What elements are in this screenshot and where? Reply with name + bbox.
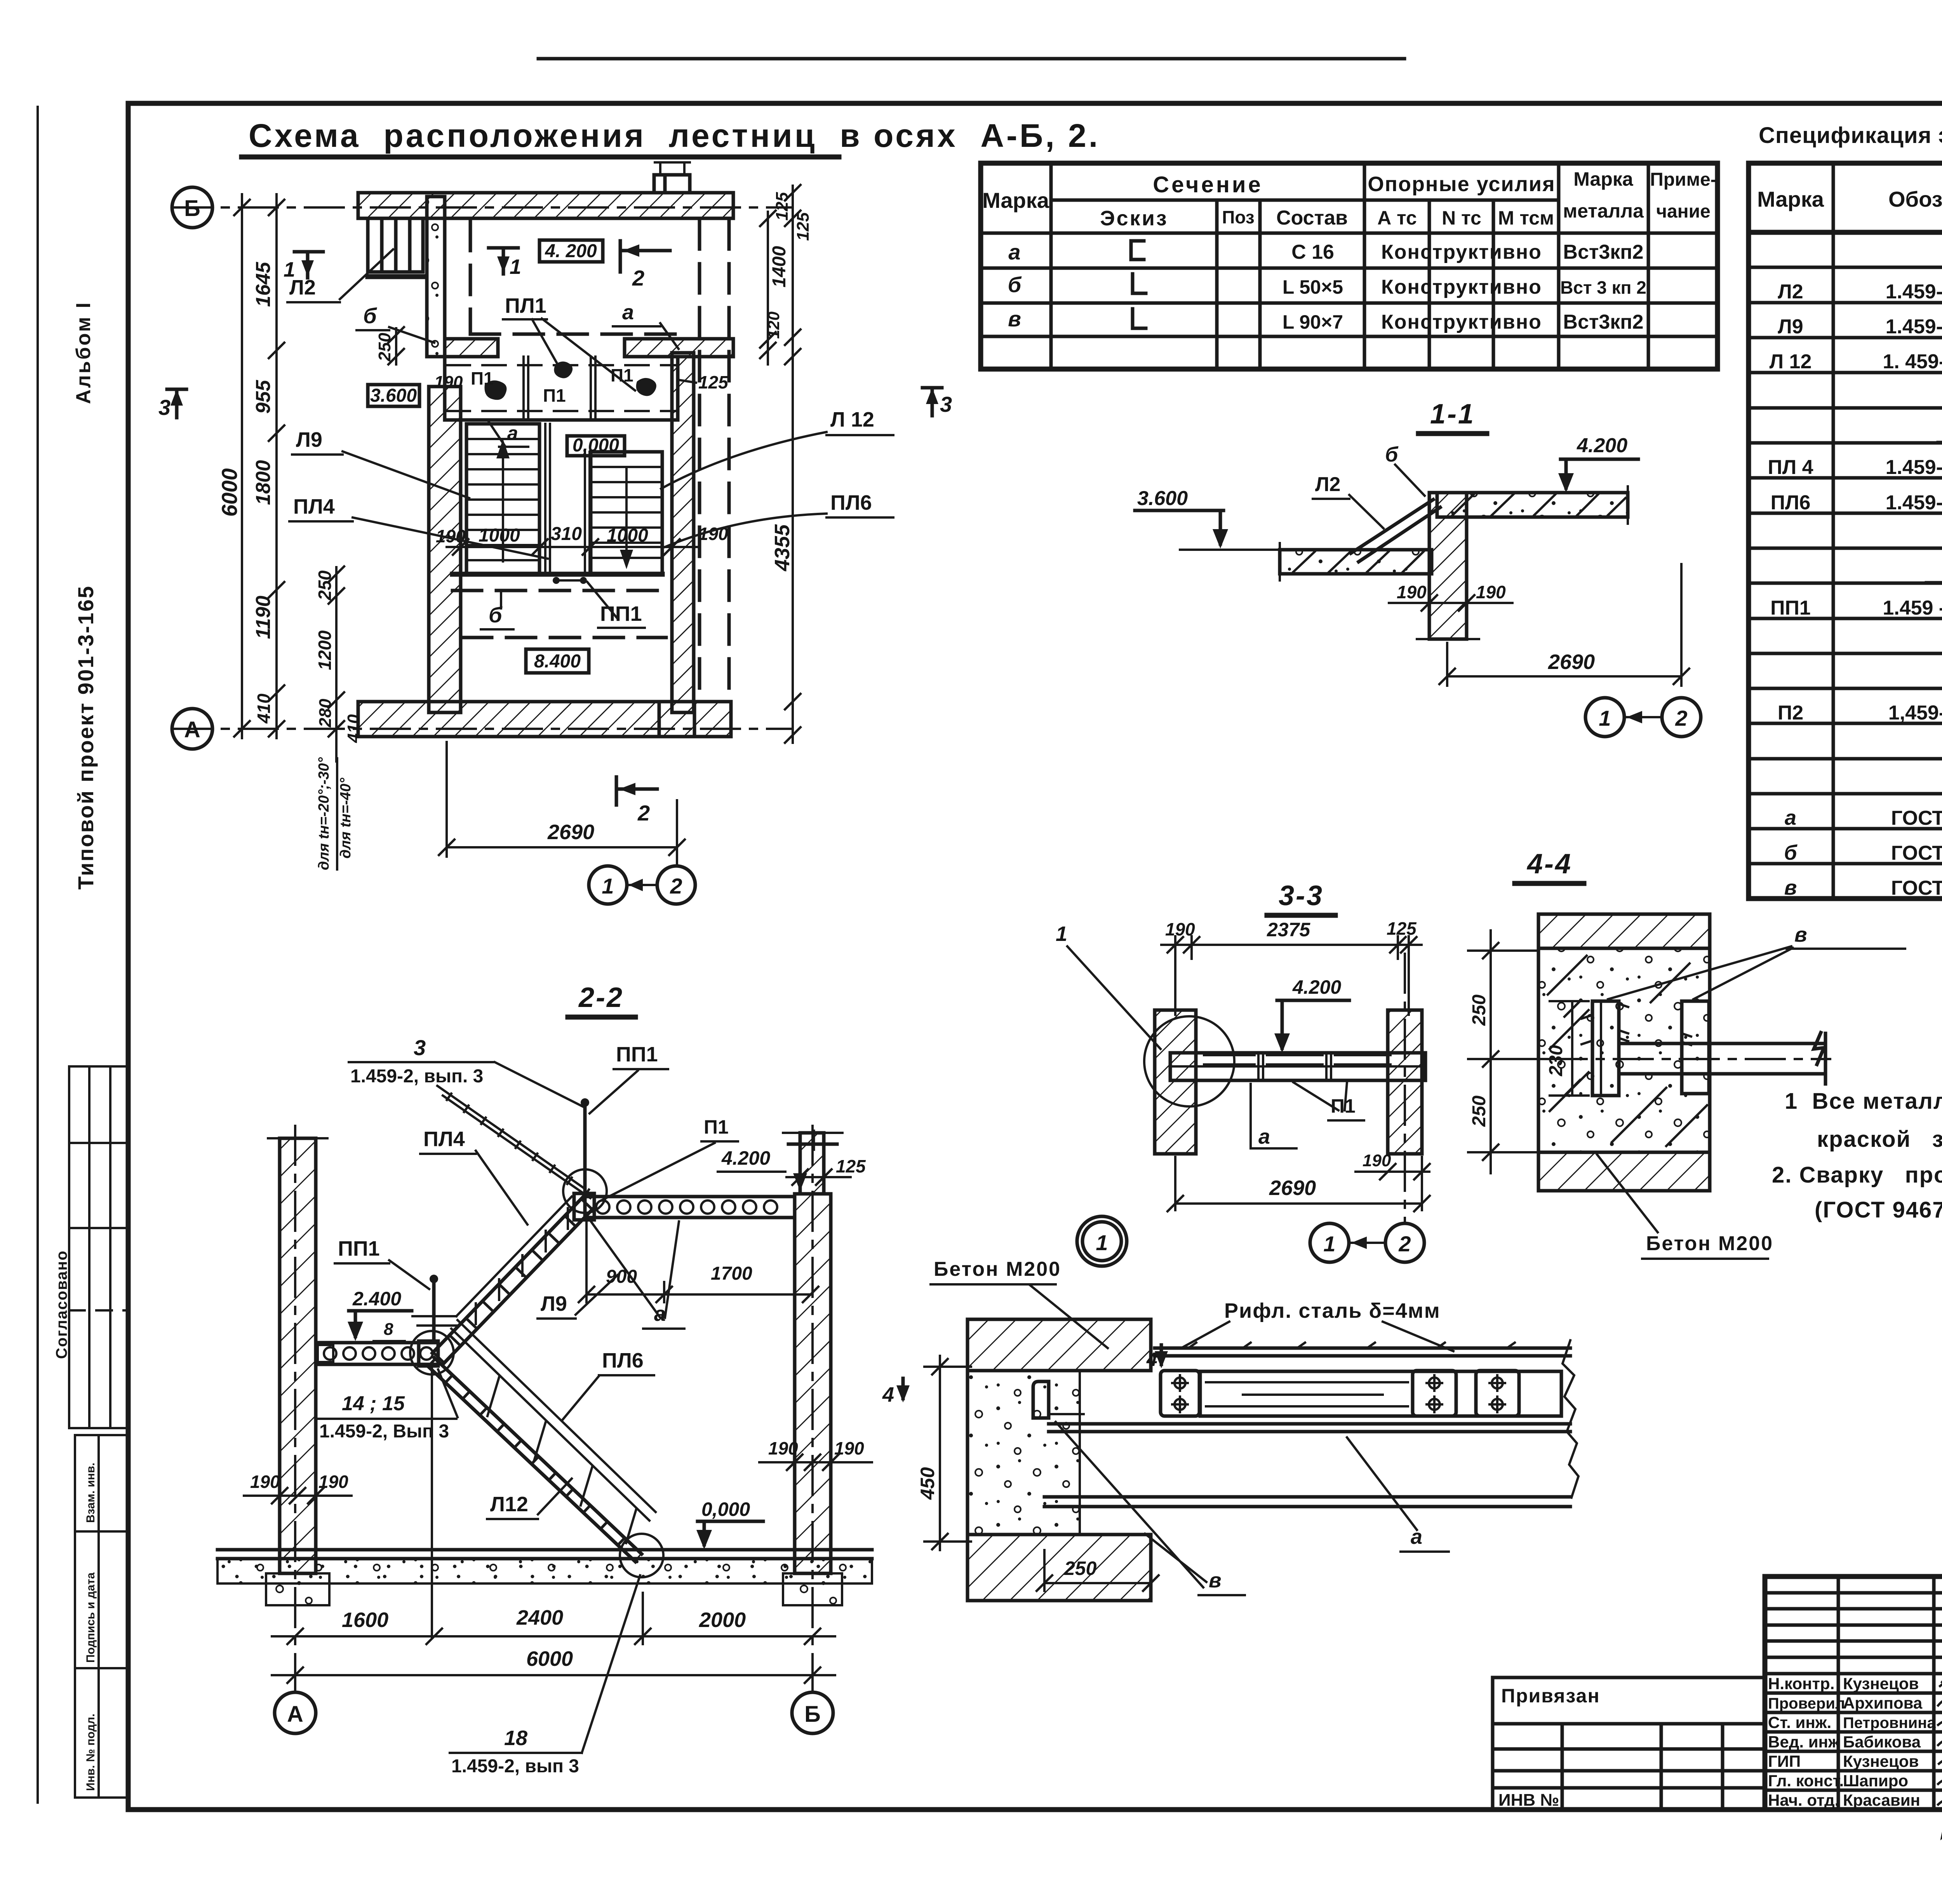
- lower flight band L12: [427, 1358, 642, 1562]
- signature table name rows: [1765, 1693, 1942, 1790]
- svg-text:Л9: Л9: [296, 428, 322, 451]
- foundation right: [783, 1573, 842, 1605]
- wall left sec33: [1155, 1010, 1196, 1154]
- svg-text:2: 2: [1675, 706, 1687, 730]
- svg-text:М тсм: М тсм: [1498, 207, 1554, 229]
- svg-text:Вст3кп2: Вст3кп2: [1563, 241, 1643, 263]
- anchor centerline: [1548, 1058, 1830, 1060]
- row a eskiz channel glyph: [1131, 241, 1144, 260]
- svg-text:1: 1: [1599, 706, 1611, 730]
- svg-text:Гл. конст.: Гл. конст.: [1768, 1772, 1844, 1790]
- axis A circle: [172, 709, 212, 749]
- svg-text:1600: 1600: [342, 1608, 388, 1632]
- landing edge thick: [452, 572, 662, 577]
- wall bottom: [358, 702, 731, 737]
- svg-text:1800: 1800: [252, 460, 275, 505]
- svg-text:1: 1: [1056, 922, 1067, 946]
- svg-text:0,000: 0,000: [573, 435, 619, 456]
- detail callout circle sec33: [1144, 1016, 1234, 1106]
- stair arrow up: [502, 449, 504, 561]
- dumbbell mark: [556, 579, 583, 582]
- svg-text:2: 2: [1398, 1232, 1411, 1256]
- svg-text:1: 1: [602, 874, 614, 898]
- svg-text:8.400: 8.400: [534, 651, 581, 672]
- svg-text:ПЛ 4: ПЛ 4: [1768, 456, 1813, 479]
- svg-text:450: 450: [917, 1467, 938, 1500]
- embedded angle: [1033, 1381, 1049, 1418]
- svg-text:Опорные усилия: Опорные усилия: [1368, 172, 1555, 196]
- beam web lines: [1049, 1424, 1570, 1432]
- svg-text:П1: П1: [471, 368, 494, 388]
- anchor bar: [1619, 1033, 1825, 1084]
- svg-text:Л9: Л9: [541, 1292, 567, 1315]
- svg-text:ПП1: ПП1: [1770, 597, 1811, 619]
- axis A 2-2: [294, 1126, 296, 1692]
- svg-text:ПЛ6: ПЛ6: [602, 1349, 644, 1372]
- svg-text:8: 8: [384, 1320, 393, 1339]
- svg-text:125: 125: [1387, 918, 1417, 939]
- junction circle bottom: [620, 1534, 663, 1577]
- dim 250 small top: [395, 328, 397, 364]
- titleblock outer: [1765, 1577, 1942, 1810]
- slab 3.600: [1280, 550, 1432, 574]
- svg-text:Конструктивно: Конструктивно: [1381, 276, 1542, 298]
- wall top hatched detail: [968, 1319, 1151, 1371]
- section table frame: [981, 163, 1718, 369]
- dim chain lower left: [335, 567, 338, 761]
- wall section 1-1: [1429, 493, 1467, 639]
- beam top box: [1200, 1371, 1561, 1416]
- dim 450 detail: [924, 1356, 971, 1550]
- svg-text:Вед. инж: Вед. инж: [1768, 1733, 1840, 1751]
- arrow between axis circles sec33: [1350, 1242, 1384, 1244]
- svg-text:ПЛ4: ПЛ4: [423, 1127, 465, 1151]
- embedded plate right: [1682, 1001, 1709, 1094]
- axis 2 line sec33: [1404, 954, 1406, 1222]
- svg-text:1,459-2, вып 2: 1,459-2, вып 2: [1888, 702, 1942, 724]
- svg-text:3-3: 3-3: [1279, 880, 1324, 911]
- stair treads left: [466, 439, 539, 560]
- svg-text:Приме-: Приме-: [1650, 169, 1717, 190]
- wall top: [358, 193, 733, 218]
- svg-text:1-1: 1-1: [1430, 399, 1475, 430]
- svg-text:Взам. инв.: Взам. инв.: [84, 1463, 97, 1523]
- svg-text:1.459-2, вып 3: 1.459-2, вып 3: [451, 1756, 579, 1777]
- chimney top: [654, 175, 690, 193]
- svg-text:6000: 6000: [526, 1647, 573, 1671]
- svg-text:4.200: 4.200: [1292, 976, 1341, 998]
- svg-text:190: 190: [434, 373, 463, 392]
- svg-text:2000: 2000: [699, 1608, 746, 1632]
- svg-text:1000: 1000: [607, 525, 648, 546]
- svg-text:Л9: Л9: [1778, 315, 1803, 338]
- svg-text:3: 3: [940, 392, 952, 416]
- svg-text:1.459-2, вып. 2: 1.459-2, вып. 2: [1886, 491, 1942, 514]
- svg-text:N тс: N тс: [1442, 207, 1481, 229]
- privyazan grid: [1493, 1724, 1765, 1810]
- foundation left: [266, 1573, 329, 1605]
- svg-text:2.400: 2.400: [352, 1288, 401, 1310]
- dim 2690 plan: [439, 742, 685, 857]
- svg-text:1.459-2, вып. 2: 1.459-2, вып. 2: [1886, 456, 1942, 479]
- railing PL4: [412, 1197, 574, 1326]
- railing PP1 upper diagonal: [437, 1086, 590, 1198]
- svg-text:Красавин: Красавин: [1843, 1791, 1920, 1809]
- svg-text:14 ; 15: 14 ; 15: [342, 1392, 405, 1415]
- wall right 2-2: [800, 1133, 824, 1194]
- svg-text:6000: 6000: [217, 468, 242, 517]
- svg-text:Марка: Марка: [982, 188, 1049, 213]
- svg-text:А тс: А тс: [1377, 207, 1417, 229]
- dim 190 190 wall: [1389, 595, 1512, 611]
- axis B 2-2: [811, 1126, 814, 1692]
- svg-text:а: а: [507, 422, 518, 444]
- top wall band 4-4: [1538, 914, 1710, 948]
- row b eskiz angle glyph: [1133, 274, 1146, 293]
- svg-text:ПП1: ПП1: [338, 1237, 380, 1260]
- svg-text:Л2: Л2: [1315, 473, 1340, 496]
- svg-text:Поз: Поз: [1222, 207, 1254, 227]
- svg-text:1.459 - 2. вып 2: 1.459 - 2. вып 2: [1883, 597, 1942, 619]
- stair flight right outline: [591, 452, 662, 574]
- svg-text:в: в: [1784, 876, 1797, 899]
- dashed landing below: [452, 591, 672, 638]
- svg-text:Петровнина: Петровнина: [1843, 1714, 1936, 1732]
- embedded plate left: [1592, 1001, 1619, 1096]
- mid platform 2.400: [316, 1343, 436, 1364]
- main title underline: [242, 155, 839, 160]
- svg-text:Обозначение: Обозначение: [1888, 187, 1942, 211]
- signature squiggles: [1940, 1677, 1942, 1688]
- svg-text:ПЛ1: ПЛ1: [505, 294, 546, 317]
- dim 250 detail: [1037, 1550, 1159, 1591]
- dim chain 4-4 left: [1468, 930, 1548, 1173]
- beam bottom flange: [1044, 1497, 1570, 1507]
- svg-text:190: 190: [1397, 582, 1427, 602]
- svg-text:2690: 2690: [1548, 650, 1595, 674]
- svg-text:Б: Б: [804, 1702, 821, 1727]
- svg-text:Л 12: Л 12: [1770, 350, 1812, 373]
- svg-text:б: б: [363, 303, 377, 328]
- stair flight left outline: [466, 424, 539, 574]
- dim line 1000 310 1000: [447, 539, 699, 555]
- svg-text:2: 2: [632, 266, 644, 290]
- svg-text:250: 250: [1469, 1096, 1490, 1127]
- svg-text:250: 250: [315, 570, 335, 601]
- svg-text:Состав: Состав: [1276, 207, 1348, 229]
- svg-text:Эскиз: Эскиз: [1100, 207, 1168, 230]
- wall left: [429, 387, 461, 712]
- wall right sec33: [1388, 1010, 1422, 1154]
- axis circle 2 sec11: [1662, 698, 1701, 737]
- svg-text:2400: 2400: [516, 1606, 563, 1629]
- svg-text:а: а: [1785, 806, 1796, 829]
- svg-text:1.459-2, вып. 2: 1.459-2, вып. 2: [1886, 315, 1942, 338]
- svg-text:П1: П1: [543, 385, 566, 406]
- beam P1 double lines: [524, 357, 595, 420]
- svg-text:Л 12: Л 12: [830, 408, 874, 431]
- svg-text:4.200: 4.200: [721, 1147, 770, 1169]
- dim chain inner left: [275, 194, 278, 738]
- svg-text:190: 190: [250, 1472, 280, 1492]
- svg-text:чание: чание: [1656, 201, 1711, 222]
- axis B line: [173, 206, 793, 209]
- dim chain right inner: [767, 212, 769, 364]
- post at junction: [583, 1103, 587, 1195]
- landing slab right piece: [625, 339, 733, 357]
- svg-text:Марка: Марка: [1757, 187, 1824, 211]
- svg-text:Вст3кп2: Вст3кп2: [1563, 311, 1643, 333]
- svg-text:190: 190: [1476, 582, 1506, 602]
- svg-text:190: 190: [1165, 919, 1195, 939]
- svg-text:1.459-2, вып. 3: 1.459-2, вып. 3: [350, 1066, 483, 1087]
- section mark 2 top: [620, 241, 670, 272]
- floor slab 2-2: [218, 1550, 872, 1559]
- svg-text:Подпись и дата: Подпись и дата: [84, 1572, 97, 1663]
- svg-text:П2: П2: [1778, 702, 1803, 724]
- svg-text:125: 125: [794, 212, 813, 241]
- svg-text:для tн=-40°: для tн=-40°: [338, 777, 354, 859]
- dim chain right outer: [792, 186, 794, 743]
- svg-text:3.600: 3.600: [1137, 487, 1188, 510]
- spec header bottom: [1749, 230, 1942, 235]
- rifled steel plate: [1155, 1348, 1570, 1356]
- svg-text:L 50×5: L 50×5: [1282, 276, 1343, 298]
- section table horizontals: [1051, 199, 1559, 202]
- wall right: [672, 353, 694, 712]
- stair treads right: [591, 467, 662, 558]
- bottom wall band 4-4: [1538, 1152, 1710, 1191]
- svg-text:250: 250: [1064, 1557, 1097, 1579]
- dim chain outer left: [241, 194, 243, 738]
- axis circle 2 plan: [657, 866, 695, 904]
- level box 4.200: [539, 240, 603, 262]
- svg-text:125: 125: [836, 1156, 866, 1176]
- svg-text:2690: 2690: [547, 820, 594, 844]
- svg-text:2. Сварку производить элек: 2. Сварку производить элекродами типа Э-…: [1772, 1162, 1942, 1188]
- section table verticals: [1049, 163, 1053, 369]
- svg-text:230: 230: [1546, 1045, 1566, 1077]
- svg-text:металла: металла: [1563, 200, 1644, 222]
- svg-text:краской за 2 раза ( ГОСТ: краской за 2 раза ( ГОСТ 695-77).: [1817, 1127, 1942, 1152]
- svg-text:Л2: Л2: [1778, 280, 1803, 303]
- svg-text:1 Все металлические констру: 1 Все металлические конструкции окрасить…: [1785, 1089, 1942, 1114]
- junction circle mid: [410, 1331, 454, 1374]
- signature table columns: [1838, 1577, 1942, 1810]
- svg-text:Типовой проект 901-3-165: Типовой проект 901-3-165: [73, 585, 98, 890]
- svg-text:Альбом I: Альбом I: [72, 301, 95, 404]
- opening in bottom wall: [659, 702, 694, 737]
- svg-text:а: а: [1258, 1125, 1270, 1148]
- svg-text:Привязан: Привязан: [1501, 1685, 1600, 1707]
- svg-text:П1: П1: [704, 1116, 729, 1138]
- svg-text:4.200: 4.200: [1577, 434, 1627, 457]
- post mid platform: [432, 1279, 436, 1343]
- svg-text:ИНВ №: ИНВ №: [1498, 1791, 1559, 1810]
- sheet fold line top: [538, 57, 1404, 61]
- top dim line 190 2375 125: [1161, 936, 1422, 1015]
- svg-text:ПЛ6: ПЛ6: [1771, 491, 1811, 514]
- bottom dims 2-2: [272, 1629, 835, 1644]
- svg-text:Нач. отд.: Нач. отд.: [1768, 1791, 1839, 1809]
- slab 4.200: [1437, 493, 1628, 517]
- row v eskiz angle glyph: [1133, 309, 1146, 328]
- svg-text:Вст 3 кп 2: Вст 3 кп 2: [1560, 277, 1646, 298]
- svg-text:410: 410: [344, 714, 363, 743]
- wall bottom hatched detail: [968, 1535, 1151, 1601]
- svg-text:1: 1: [1096, 1230, 1108, 1255]
- wall concrete detail: [968, 1371, 1080, 1535]
- svg-text:1: 1: [1323, 1232, 1335, 1256]
- spec row lines: [1749, 267, 1942, 864]
- svg-text:900: 900: [606, 1266, 637, 1287]
- svg-text:0,000: 0,000: [701, 1498, 750, 1520]
- spec table frame: [1749, 163, 1942, 899]
- svg-text:2-2: 2-2: [578, 982, 624, 1013]
- svg-text:1. 459-2, вып. 2: 1. 459-2, вып. 2: [1883, 350, 1942, 373]
- svg-text:3: 3: [414, 1035, 426, 1060]
- svg-text:Схема расположения лестниц: Схема расположения лестниц в осях А-Б, 2…: [249, 117, 1100, 154]
- axis B circle: [172, 187, 212, 228]
- svg-text:250: 250: [1469, 995, 1490, 1026]
- concrete body 4-4: [1538, 948, 1710, 1152]
- svg-text:Бетон М200: Бетон М200: [1646, 1232, 1773, 1255]
- svg-text:18: 18: [504, 1726, 527, 1750]
- svg-text:4355: 4355: [771, 524, 794, 571]
- margin table upper: [69, 1066, 127, 1428]
- axis circle 1 plan: [589, 866, 627, 904]
- dim 2690 sec11: [1439, 564, 1689, 686]
- level box 8.400: [526, 649, 589, 673]
- svg-text:А: А: [287, 1702, 303, 1727]
- svg-text:б: б: [1385, 443, 1399, 466]
- svg-text:1645: 1645: [252, 261, 275, 307]
- stair flight L2 diagonal: [1351, 500, 1440, 562]
- svg-text:1.459-2, вып. 2: 1.459-2, вып. 2: [1886, 280, 1942, 303]
- svg-text:Рифл. сталь δ=4мм: Рифл. сталь δ=4мм: [1224, 1299, 1441, 1322]
- window grille: [368, 218, 423, 272]
- svg-text:Инв. № подл.: Инв. № подл.: [84, 1714, 97, 1791]
- svg-text:410: 410: [254, 693, 274, 724]
- svg-text:в: в: [1209, 1569, 1222, 1592]
- svg-text:2: 2: [670, 874, 682, 898]
- junction circle top: [563, 1169, 607, 1213]
- svg-text:Кузнецов: Кузнецов: [1843, 1674, 1919, 1693]
- svg-text:С 16: С 16: [1291, 241, 1334, 263]
- svg-text:а: а: [622, 301, 634, 324]
- svg-text:310: 310: [551, 524, 582, 544]
- extension verticals 2-2: [432, 1367, 643, 1644]
- svg-text:1200: 1200: [315, 630, 335, 670]
- axis circle 1 sec11: [1585, 698, 1624, 737]
- svg-text:1190: 1190: [252, 596, 275, 639]
- svg-text:ГОСТ 8509-72: ГОСТ 8509-72: [1891, 877, 1942, 899]
- svg-text:1700: 1700: [711, 1263, 752, 1284]
- detail circle 1: [1077, 1216, 1127, 1266]
- svg-text:а: а: [1008, 240, 1020, 264]
- svg-text:в: в: [1008, 307, 1021, 331]
- top platform 4.200: [585, 1197, 795, 1218]
- axis circle 2 sec33: [1385, 1223, 1424, 1262]
- beam box at platform left end: [574, 1193, 594, 1220]
- svg-text:Марка: Марка: [1573, 168, 1634, 190]
- beam box at mid platform right end: [419, 1341, 438, 1366]
- svg-text:125: 125: [698, 372, 729, 392]
- svg-text:3.600: 3.600: [370, 385, 417, 406]
- svg-text:Ст. инж.: Ст. инж.: [1768, 1713, 1831, 1732]
- svg-text:б: б: [1008, 272, 1022, 297]
- svg-text:Шапиро: Шапиро: [1843, 1772, 1908, 1790]
- stiffener box 1: [1161, 1371, 1199, 1416]
- svg-text:Архипова: Архипова: [1843, 1694, 1923, 1712]
- svg-text:Конструктивно: Конструктивно: [1381, 241, 1542, 263]
- stiffener box 2: [1413, 1371, 1456, 1416]
- level box 0.000: [567, 436, 625, 456]
- platform slab sec33: [1170, 1053, 1425, 1080]
- svg-text:П1: П1: [1331, 1095, 1356, 1117]
- arrow between circles: [628, 884, 656, 886]
- svg-text:3: 3: [158, 395, 171, 420]
- svg-text:250: 250: [375, 333, 394, 362]
- svg-text:ГОСТ 8509-72: ГОСТ 8509-72: [1891, 842, 1942, 864]
- margin table lower: [75, 1435, 129, 1798]
- stippled pilaster: [427, 197, 445, 357]
- upper flight band L9: [432, 1195, 594, 1364]
- svg-text:1.459-2, Вып 3: 1.459-2, Вып 3: [319, 1421, 449, 1442]
- dashed lines in P1 zone: [447, 365, 676, 411]
- arrow between axis circles sec11: [1626, 716, 1661, 718]
- svg-text:для tн=-20°;-30°: для tн=-20°;-30°: [316, 757, 332, 870]
- svg-text:4: 4: [882, 1383, 894, 1406]
- svg-text:Кузнецов: Кузнецов: [1843, 1752, 1919, 1770]
- svg-text:1000: 1000: [479, 525, 520, 546]
- svg-text:Согласовано: Согласовано: [53, 1250, 70, 1359]
- level box 3.600: [368, 385, 419, 406]
- hidden opening dashed upper room: [470, 221, 676, 334]
- svg-text:Сечение: Сечение: [1153, 172, 1263, 197]
- svg-text:120: 120: [764, 312, 783, 339]
- svg-text:1400: 1400: [769, 246, 790, 287]
- axis A line: [173, 728, 793, 730]
- svg-text:ПЛ4: ПЛ4: [293, 495, 335, 518]
- svg-text:ПП1: ПП1: [616, 1043, 658, 1066]
- hidden wall lines right dashed: [700, 220, 729, 699]
- svg-text:1: 1: [510, 255, 521, 279]
- axis line to circle 2: [676, 800, 678, 866]
- section mark 2 bottom: [616, 777, 657, 805]
- wall left 2-2: [280, 1138, 316, 1573]
- svg-text:ПЛ6: ПЛ6: [830, 491, 872, 514]
- svg-text:Проверил: Проверил: [1768, 1695, 1845, 1712]
- svg-text:2375: 2375: [1267, 919, 1310, 941]
- svg-text:(ГОСТ 9467-75) h: (ГОСТ 9467-75) h: [1815, 1197, 1942, 1223]
- stringers middle: [545, 424, 590, 574]
- svg-text:ГИП: ГИП: [1768, 1752, 1801, 1770]
- svg-text:Бетон М200: Бетон М200: [934, 1258, 1061, 1280]
- svg-text:а: а: [654, 1302, 666, 1326]
- svg-text:Л2: Л2: [289, 276, 316, 299]
- spec col marka: [1832, 163, 1835, 899]
- svg-text:Конструктивно: Конструктивно: [1381, 311, 1542, 333]
- svg-text:ГОСТ 8240-72: ГОСТ 8240-72: [1891, 807, 1942, 829]
- svg-text:в: в: [1794, 923, 1807, 946]
- stiffener box 3: [1476, 1371, 1519, 1416]
- svg-text:2: 2: [637, 801, 650, 825]
- svg-text:Б: Б: [184, 196, 200, 221]
- svg-text:125: 125: [773, 192, 792, 221]
- right break line: [1563, 1340, 1578, 1498]
- signature table header rows: [1765, 1593, 1942, 1674]
